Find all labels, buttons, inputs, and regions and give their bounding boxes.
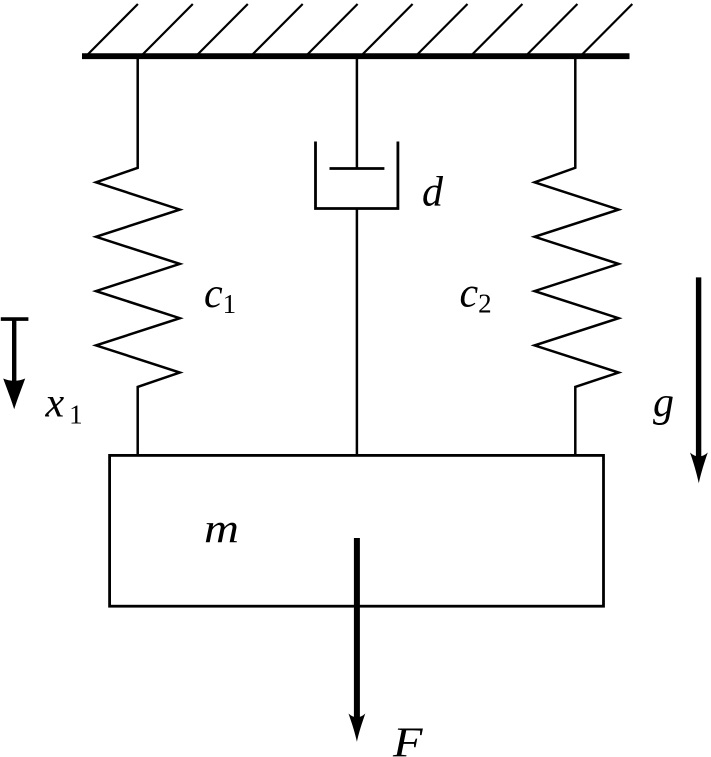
svg-text:g: g [653,380,674,426]
svg-text:m: m [204,505,239,551]
x1 arrow shaft [12,319,16,382]
svg-text:d: d [422,170,444,216]
damper d: piston rod from ceiling [356,56,359,169]
spring c1 (left) [96,56,180,457]
damper d: lower rod to mass [356,209,359,457]
force arrow F: shaft [354,538,360,718]
gravity arrow g: shaft [696,277,701,458]
F arrowhead [349,714,366,742]
damper d: cylinder cup [316,142,398,209]
fixed ceiling support bar [82,53,630,59]
spring c2 (right) [535,56,619,457]
svg-text:F: F [392,721,423,757]
displacement reference crossbar (x1 datum) [1,317,29,321]
damper d: piston plate [330,167,385,170]
x1 arrowhead [3,379,25,410]
mass block m [110,455,604,606]
g arrowhead [690,453,708,484]
ceiling hatching [86,4,632,56]
